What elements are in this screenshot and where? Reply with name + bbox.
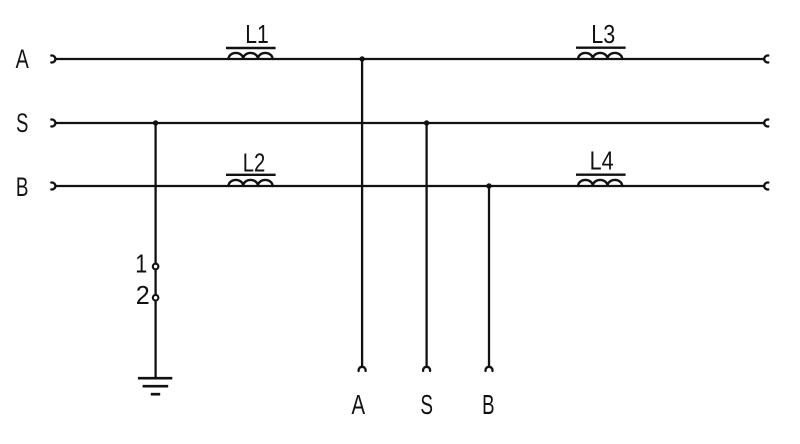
svg-text:B: B (482, 389, 494, 420)
svg-text:L3: L3 (591, 19, 615, 49)
svg-text:L2: L2 (243, 148, 266, 178)
svg-text:S: S (16, 108, 28, 138)
svg-text:L1: L1 (245, 19, 269, 49)
svg-text:1: 1 (135, 248, 147, 278)
svg-text:2: 2 (136, 280, 150, 310)
svg-text:A: A (16, 44, 29, 74)
svg-text:A: A (352, 389, 366, 420)
svg-text:L4: L4 (590, 146, 614, 176)
svg-text:S: S (420, 389, 433, 420)
svg-text:B: B (16, 172, 29, 202)
